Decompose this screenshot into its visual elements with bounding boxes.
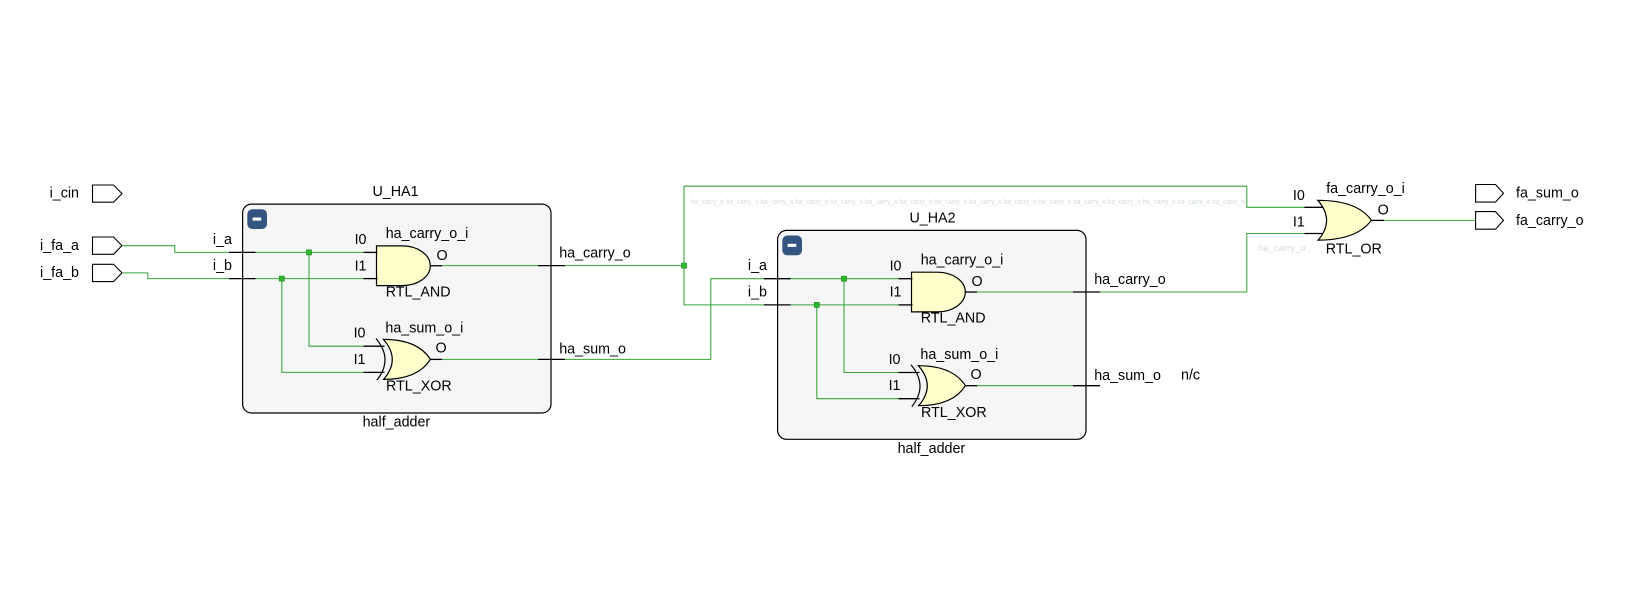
wire U_HA2 i_b internal to AND I1 [791,304,899,306]
svg-text:ha_sum_o: ha_sum_o [1094,368,1161,384]
wire i_fa_b to U_HA1 i_b [122,273,230,279]
label U_HA1 [372,184,418,200]
pin label I0 (RTL_AND U_HA1) [355,232,367,248]
and gate U_HA2 RTL_AND [912,272,966,312]
svg-text:ha_carry_o: ha_carry_o [1258,243,1306,254]
stub RTL_AND I0 (U_HA2) [899,278,913,280]
svg-text:U_HA1: U_HA1 [372,184,418,200]
wire RTL_XOR O to U_HA2 boundary [977,385,1073,387]
wire U_HA2 i_b branch down to XOR I1 [817,305,899,399]
svg-text:i_a: i_a [213,232,232,248]
wire RTL_AND O to U_HA1 boundary [442,265,538,267]
pin label i_a (U_HA2) [748,258,767,274]
svg-text:ha_carry_o_i: ha_carry_o_i [921,252,1004,268]
svg-text:half_adder: half_adder [898,441,966,457]
input port i_fa_a [93,237,123,254]
svg-text:RTL_AND: RTL_AND [921,311,986,327]
pin label O (RTL_OR) [1378,203,1389,219]
or gate RTL_OR [1318,200,1372,240]
pin label O (RTL_AND U_HA1) [436,248,447,264]
wire RTL_AND O to U_HA2 boundary [977,291,1073,293]
and gate U_HA1 RTL_AND [377,246,431,286]
pin label i_b (U_HA2) [748,284,767,300]
svg-text:fa_carry_o_i: fa_carry_o_i [1326,181,1405,197]
stub RTL_XOR O (U_HA2) [965,385,977,387]
svg-text:i_b: i_b [213,258,232,274]
label i_fa_b [40,265,79,281]
junction U_HA1 i_a [307,250,312,255]
pin stub U_HA1 ha_carry_o [538,265,565,267]
pin label O (RTL_XOR U_HA1) [435,341,446,357]
pin stub U_HA2 i_b [764,304,791,306]
svg-text:ha_sum_o: ha_sum_o [559,342,626,358]
input port i_fa_b [93,264,123,281]
stub RTL_AND I0 [364,251,378,253]
wire i_fa_a to U_HA1 i_a [122,246,230,253]
stub RTL_AND I1 (U_HA2) [899,304,913,306]
svg-text:I1: I1 [890,285,902,301]
svg-text:i_fa_a: i_fa_a [40,238,79,254]
svg-text:i_cin: i_cin [50,185,79,201]
wire net ha_sum_o from U_HA1 to U_HA2 i_a [565,279,765,360]
svg-text:i_b: i_b [748,284,767,300]
svg-text:i_a: i_a [748,258,767,274]
svg-text:fa_carry_o: fa_carry_o [1516,213,1584,229]
pin label I0 (RTL_XOR U_HA1) [354,326,366,342]
pin label I1 (RTL_XOR U_HA1) [354,352,366,368]
faint repeated net name along top wire ha_carry_o [691,199,1245,206]
svg-text:O: O [970,367,981,383]
collapse button U_HA2 [782,236,802,256]
pin stub U_HA2 i_a [764,278,791,280]
svg-text:RTL_AND: RTL_AND [386,284,451,300]
svg-text:I1: I1 [1293,215,1305,231]
instance label fa_carry_o_i [1326,181,1405,197]
svg-text:I0: I0 [890,258,902,274]
stub RTL_OR I0 [1305,206,1323,208]
type label RTL_XOR (U_HA1) [386,379,452,395]
svg-text:I1: I1 [354,352,366,368]
type label RTL_OR [1326,241,1382,257]
wire net ha_carry_o down to U_HA2 i_b [684,266,765,305]
svg-text:ha_sum_o_i: ha_sum_o_i [385,321,463,337]
label i_cin [50,185,79,201]
pin label O (RTL_AND U_HA2) [971,274,982,290]
svg-text:ha_carry_o: ha_carry_o [1094,272,1166,288]
collapse button U_HA1 [247,209,267,229]
wire U_HA2 i_a internal to AND I0 [791,278,899,280]
junction U_HA2 i_a [842,276,847,281]
pin label I1 (RTL_XOR U_HA2) [889,378,901,394]
svg-text:I1: I1 [889,378,901,394]
svg-text:I1: I1 [355,258,367,274]
stub RTL_OR I1 [1305,233,1323,235]
label U_HA2 [909,210,955,226]
xor gate U_HA1 RTL_XOR [376,339,430,381]
instance label ha_carry_o_i (U_HA2) [921,252,1004,268]
pin label i_b (U_HA1) [213,258,232,274]
svg-text:O: O [971,274,982,290]
wire U_HA1 i_b branch down to XOR I1 [282,279,364,373]
svg-text:ha_sum_o_i: ha_sum_o_i [920,347,998,363]
label fa_sum_o [1516,186,1579,202]
stub RTL_AND O (U_HA2) [965,291,977,293]
svg-text:I0: I0 [355,232,367,248]
wire RTL_OR O to fa_carry_o port [1384,219,1476,221]
svg-text:RTL_XOR: RTL_XOR [921,405,987,421]
pin stub U_HA1 ha_sum_o [538,358,565,360]
label fa_carry_o [1516,213,1584,229]
label i_fa_a [40,238,79,254]
svg-text:ha_carry_o_i: ha_carry_o_i [386,226,469,242]
svg-text:RTL_OR: RTL_OR [1326,241,1382,257]
wire net ha_carry_o from U_HA1 to junction [565,265,684,267]
wire U_HA1 i_a internal to AND I0 [256,251,364,253]
svg-text:U_HA2: U_HA2 [909,210,955,226]
stub RTL_XOR I1 (U_HA2) [899,398,920,400]
net label ha_sum_o (U_HA1) [559,342,626,358]
junction net ha_carry_o [682,263,687,268]
pin label I1 (RTL_AND U_HA1) [355,258,367,274]
junction U_HA2 i_b [814,302,819,307]
stub RTL_XOR I1 [364,371,385,373]
svg-text:I0: I0 [889,352,901,368]
pin label i_a (U_HA1) [213,232,232,248]
svg-text:I0: I0 [354,326,366,342]
pin label O (RTL_XOR U_HA2) [970,367,981,383]
instance label ha_carry_o_i (U_HA1) [386,226,469,242]
module block U_HA1 (half_adder) [243,204,551,413]
wire U_HA1 i_a branch down to XOR I0 [309,252,364,346]
type label RTL_AND (U_HA2) [921,311,986,327]
module block U_HA2 (half_adder) [778,230,1086,439]
instance label ha_sum_o_i (U_HA1) [385,321,463,337]
pin stub U_HA2 ha_sum_o (n/c) [1073,385,1100,387]
svg-text:O: O [435,341,446,357]
wire U_HA1 i_b internal to AND I1 [256,278,364,280]
stub RTL_OR O [1371,219,1384,221]
wire U_HA2 i_a branch down to XOR I0 [844,279,899,373]
svg-text:RTL_XOR: RTL_XOR [386,379,452,395]
stub RTL_XOR O [430,358,442,360]
faint net name near OR gate input I1 [1258,243,1306,254]
stub RTL_XOR I0 [364,345,385,347]
svg-text:n/c: n/c [1181,368,1200,384]
wire net ha_carry_o U_HA2 to OR I1 [1100,234,1305,293]
svg-text:fa_sum_o: fa_sum_o [1516,186,1579,202]
svg-text:O: O [1378,203,1389,219]
wire net ha_carry_o up and across top to OR I0 [684,186,1305,265]
pin label I1 (RTL_AND U_HA2) [890,285,902,301]
net label ha_carry_o (U_HA1) [559,246,631,262]
svg-text:half_adder: half_adder [363,415,431,431]
pin stub U_HA2 ha_carry_o [1073,291,1100,293]
type label RTL_AND (U_HA1) [386,284,451,300]
net label ha_carry_o (U_HA2) [1094,272,1166,288]
svg-text:i_fa_b: i_fa_b [40,265,79,281]
stub RTL_AND O [430,265,442,267]
pin label I0 (RTL_AND U_HA2) [890,258,902,274]
pin stub U_HA1 i_b [229,278,256,280]
output port fa_sum_o [1476,185,1504,203]
label n/c [1181,368,1200,384]
stub RTL_XOR I0 (U_HA2) [899,372,920,374]
label half_adder (U_HA2) [898,441,966,457]
xor gate U_HA2 RTL_XOR [911,365,965,407]
input port i_cin [93,185,123,202]
svg-text:O: O [436,248,447,264]
instance label ha_sum_o_i (U_HA2) [920,347,998,363]
svg-text:ha_carry_o: ha_carry_o [559,246,631,262]
pin label I0 (RTL_OR) [1293,188,1305,204]
label half_adder (U_HA1) [363,415,431,431]
pin stub U_HA1 i_a [229,251,256,253]
pin label I1 (RTL_OR) [1293,215,1305,231]
wire RTL_XOR O to U_HA1 boundary [442,358,538,360]
svg-text:I0: I0 [1293,188,1305,204]
stub RTL_AND I1 [364,278,378,280]
junction U_HA1 i_b [279,276,284,281]
type label RTL_XOR (U_HA2) [921,405,987,421]
pin label I0 (RTL_XOR U_HA2) [889,352,901,368]
net label ha_sum_o (U_HA2) [1094,368,1161,384]
output port fa_carry_o [1476,212,1504,230]
svg-text:ha_carry_o ha_carry_o ha_carry: ha_carry_o ha_carry_o ha_carry_o ha_carr… [691,199,1245,206]
